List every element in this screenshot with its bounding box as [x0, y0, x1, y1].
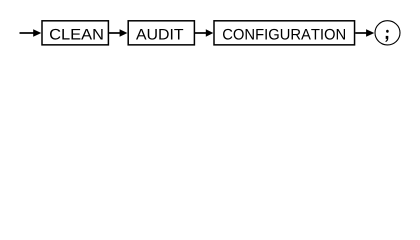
terminal box CONFIGURATION	[214, 21, 355, 45]
label CONFIGURATION	[223, 29, 345, 40]
arrowhead into AUDIT	[120, 29, 128, 36]
arrowhead into CONFIGURATION	[206, 29, 214, 36]
wire: entry line	[20, 32, 35, 34]
wire: CLEAN to AUDIT	[109, 32, 121, 34]
label CLEAN	[50, 29, 103, 40]
railroad diagram: CLEAN AUDIT CONFIGURATION ;	[0, 0, 420, 56]
terminal box CLEAN	[42, 21, 108, 45]
wire: CONFIGURATION to terminator	[355, 32, 367, 34]
arrowhead into terminator	[366, 29, 374, 36]
arrowhead into CLEAN	[33, 29, 41, 36]
label AUDIT	[136, 29, 183, 40]
terminator ellipse	[375, 21, 400, 45]
terminal box AUDIT	[128, 21, 194, 45]
label semicolon (drawn): comma	[385, 36, 388, 42]
wire: AUDIT to CONFIGURATION	[195, 32, 207, 34]
label semicolon (drawn): dot	[386, 30, 389, 33]
